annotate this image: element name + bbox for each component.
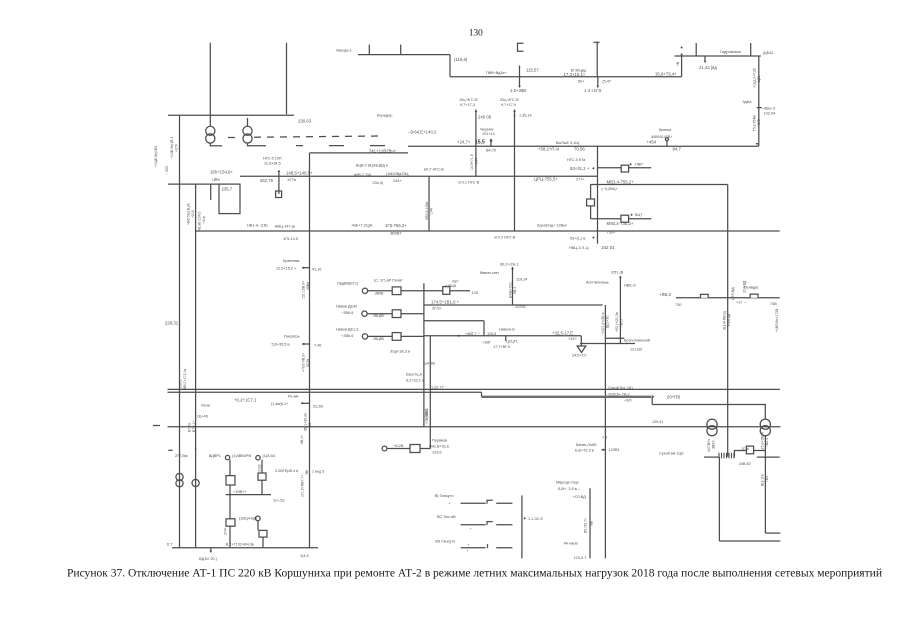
svg-text:ЗЦ-4+ПВпд: ЗЦ-4+ПВпд bbox=[722, 311, 726, 330]
wire tap 10ц bbox=[475, 110, 477, 147]
svg-text:1Г5-14,5: 1Г5-14,5 bbox=[283, 237, 298, 241]
generator G2 bbox=[362, 311, 367, 316]
svg-text:1,22,77: 1,22,77 bbox=[431, 386, 444, 390]
svg-text:9,7+17,9: 9,7+17,9 bbox=[501, 103, 516, 107]
wire bbox=[257, 521, 259, 531]
svg-text:−9Ва−3: −9Ва−3 bbox=[762, 107, 775, 111]
svg-text:Г5,2-754В: Г5,2-754В bbox=[753, 115, 757, 131]
svg-text:Еврстц,А: Еврстц,А bbox=[406, 373, 423, 377]
svg-text:125: 125 bbox=[472, 291, 478, 295]
breaker G2 bbox=[392, 310, 401, 318]
svg-text:ВДВР1: ВДВР1 bbox=[209, 454, 221, 458]
svg-text:Б,В+72,9 в: Б,В+72,9 в bbox=[575, 449, 594, 453]
dash mark left bbox=[153, 425, 160, 427]
arrowhead bbox=[209, 551, 212, 553]
svg-text:+: + bbox=[470, 527, 472, 531]
svg-text:+219: +219 bbox=[191, 210, 195, 218]
wire to long riser bbox=[590, 184, 728, 186]
thick line 205,5 bbox=[482, 396, 652, 398]
wire Кропоткинский bbox=[580, 343, 635, 345]
wire tie 1ВВ7 bbox=[226, 494, 271, 496]
svg-text:ЗГ/3+: ЗГ/3+ bbox=[432, 306, 443, 310]
svg-text:24,5+Г,0: 24,5+Г,0 bbox=[572, 354, 586, 358]
wire tap bbox=[704, 56, 706, 61]
svg-text:ЦВы: ЦВы bbox=[212, 178, 220, 182]
svg-text:ПВВ+Вд3я+: ПВВ+Вд3я+ bbox=[486, 71, 507, 75]
wire reactor out bbox=[590, 206, 592, 219]
arrowhead T4 feeder bbox=[194, 449, 196, 451]
svg-text:+0,2+1С7,1: +0,2+1С7,1 bbox=[234, 397, 257, 402]
svg-text:1 4 +1Г,6: 1 4 +1Г,6 bbox=[584, 88, 602, 93]
arrowhead bbox=[596, 86, 599, 88]
svg-text:577в: 577в bbox=[288, 178, 296, 182]
svg-text:+1ЦВ,Зв(1В4: +1ЦВ,Зв(1В4 bbox=[154, 146, 158, 167]
svg-text:Перввов: Перввов bbox=[432, 438, 447, 442]
wire Мврсцв bbox=[589, 488, 591, 558]
svg-text:ВчЕ,В+31,Е: ВчЕ,В+31,Е bbox=[429, 444, 450, 448]
arrowhead bbox=[592, 167, 594, 170]
arrester symbol bbox=[577, 346, 586, 353]
svg-text:7В4: 7В4 bbox=[765, 476, 769, 482]
svg-text:отп.2 НГС-В: отп.2 НГС-В bbox=[494, 236, 516, 240]
svg-text:+ЛВ,3: +ЛВ,3 bbox=[659, 292, 671, 297]
svg-text:1Г,Г: 1Г,Г bbox=[167, 543, 173, 547]
svg-text:115,57: 115,57 bbox=[526, 68, 539, 73]
svg-text:165+154,6+: 165+154,6+ bbox=[210, 170, 233, 175]
breaker Q3 notch bbox=[701, 294, 709, 297]
wire G3 bbox=[368, 335, 393, 337]
svg-text:Вввнн-сгвт: Вввнн-сгвт bbox=[480, 271, 499, 275]
arrowhead bbox=[704, 61, 707, 63]
svg-text:+ЦЕ1: +ЦЕ1 bbox=[757, 75, 761, 84]
wire Ангт branch bbox=[619, 276, 621, 344]
wire to T6 bbox=[764, 404, 766, 420]
wire bottom link bbox=[719, 540, 780, 542]
reactor R1 bbox=[587, 199, 595, 206]
transformer T1 bbox=[206, 126, 215, 143]
svg-text:Шунфтзд+ 12Вкч: Шунфтзд+ 12Вкч bbox=[537, 224, 567, 228]
svg-text:+3/0: +3/0 bbox=[624, 399, 632, 403]
svg-text:..ЗВ5В: ..ЗВ5В bbox=[373, 291, 384, 295]
svg-text:,ПВР: ,ПВР bbox=[634, 163, 643, 167]
svg-text:244+: 244+ bbox=[393, 179, 402, 183]
svg-text:−ЗВ6,6: −ЗВ6,6 bbox=[341, 311, 353, 315]
wire tap 20ц otp bbox=[514, 110, 516, 232]
svg-text:КЗВ6: КЗВ6 bbox=[425, 409, 429, 417]
svg-text:КМ3,4-735,2+: КМ3,4-735,2+ bbox=[607, 221, 634, 226]
svg-text:1,5+35В: 1,5+35В bbox=[510, 88, 526, 93]
svg-text:+379: +379 bbox=[174, 144, 178, 152]
wire bus to Q bbox=[424, 290, 443, 292]
svg-text:Сухой вм 1Ц6: Сухой вм 1Ц6 bbox=[659, 452, 683, 456]
bus Гидровская bbox=[675, 55, 761, 57]
wire top bus A bbox=[358, 54, 450, 56]
wire G3 to bus bbox=[401, 335, 424, 337]
line 174,5 bbox=[424, 304, 603, 306]
svg-text:(С. 1Г) вР Почвт: (С. 1Г) вР Почвт bbox=[374, 279, 403, 283]
wire tap bbox=[519, 66, 521, 87]
svg-text:5В,4: 5В,4 bbox=[513, 287, 517, 294]
wire long riser x605 bbox=[604, 305, 606, 558]
wire stub bbox=[302, 267, 309, 269]
svg-text:+344: +344 bbox=[474, 158, 478, 166]
breaker Q6 bbox=[746, 446, 753, 454]
wire legend bus bbox=[521, 495, 523, 558]
wire legend r2b bbox=[496, 524, 512, 526]
svg-text:ЦРЦ-755,5+: ЦРЦ-755,5+ bbox=[534, 177, 558, 182]
dashed corridor boundary bbox=[228, 136, 240, 138]
svg-text:В5,/33,7+: В5,/33,7+ bbox=[584, 518, 588, 533]
wire left feeder 2 bbox=[195, 184, 197, 548]
wire branch riser bbox=[597, 146, 599, 244]
svg-text:Мврсцв-стцв: Мврсцв-стцв bbox=[556, 480, 578, 484]
svg-text:+С0,ВД: +С0,ВД bbox=[573, 495, 587, 499]
svg-text:12ЗВ1: 12ЗВ1 bbox=[609, 448, 620, 452]
wire legend r1a bbox=[461, 502, 486, 504]
svg-text:125,4): 125,4) bbox=[652, 420, 664, 424]
svg-text:+1В9,Вч+172$: +1В9,Вч+172$ bbox=[775, 309, 779, 332]
machine M1 bbox=[382, 446, 387, 451]
wire bbox=[229, 460, 231, 476]
svg-text:+58,2+П,\4: +58,2+П,\4 bbox=[538, 147, 560, 152]
wire legend r1b bbox=[496, 502, 512, 504]
svg-text:/вВ: /вВ bbox=[590, 520, 594, 526]
wire link right bbox=[765, 532, 780, 534]
line A long 110kV bbox=[168, 426, 781, 428]
transformer T6 bbox=[760, 419, 770, 436]
svg-text:Заводс-1: Заводс-1 bbox=[336, 49, 352, 53]
breaker B3 bbox=[258, 473, 266, 480]
contact symbol r2 bbox=[487, 522, 493, 526]
generator bracket 2 bbox=[594, 41, 600, 43]
svg-text:242 01: 242 01 bbox=[601, 245, 615, 250]
arrowhead thick line bbox=[652, 395, 655, 399]
svg-text:1Г1,6+ПВ7,7+: 1Г1,6+ПВ7,7+ bbox=[300, 474, 304, 497]
svg-text:Щ(')+3С: Щ(')+3С bbox=[606, 315, 610, 328]
svg-text:В,2+7132+В4,3в: В,2+7132+В4,3в bbox=[226, 543, 254, 547]
wire reactor stub bbox=[590, 185, 592, 200]
wire tap bbox=[597, 77, 599, 86]
wire bbox=[229, 485, 231, 519]
wire row bbox=[704, 456, 719, 458]
dashed row 2 bbox=[296, 145, 385, 147]
arrowhead bus end bbox=[756, 143, 759, 145]
svg-text:+1ВГ: +1ВГ bbox=[482, 340, 491, 344]
svg-text:+4ВГ,7 −: +4ВГ,7 − bbox=[465, 332, 481, 336]
wire gen bus bbox=[423, 283, 425, 427]
svg-text:121,ВЗ: 121,ВЗ bbox=[630, 348, 643, 352]
wire G1 bbox=[368, 290, 393, 292]
svg-text:60,2+/2А,1: 60,2+/2А,1 bbox=[500, 262, 518, 266]
arrowhead bbox=[278, 170, 281, 172]
svg-text:+В,вЕ-154,6: +В,вЕ-154,6 bbox=[198, 211, 202, 231]
svg-text:730: 730 bbox=[675, 303, 681, 307]
wire bbox=[261, 480, 263, 494]
wire down left bbox=[718, 457, 720, 541]
svg-text:ВЦВ-2 ВЦ4аЦВД в: ВЦВ-2 ВЦ4аЦВД в bbox=[356, 164, 388, 168]
svg-text:+15?: +15? bbox=[568, 337, 577, 341]
svg-text:Б4/В+7С1: Б4/В+7С1 bbox=[509, 282, 513, 298]
line lower left bbox=[168, 391, 482, 393]
svg-text:(−3,2ВЦ+: (−3,2ВЦ+ bbox=[601, 187, 618, 191]
wire bbox=[262, 537, 264, 547]
svg-text:21,44 [вд: 21,44 [вд bbox=[699, 65, 717, 70]
wire right riser bbox=[758, 56, 760, 146]
svg-text:ВыЛыЕ 5,1Щ: ВыЛыЕ 5,1Щ bbox=[556, 141, 579, 145]
svg-text:741+12В2Вч+: 741+12В2Вч+ bbox=[369, 148, 397, 153]
svg-text:53+(1,) в: 53+(1,) в bbox=[570, 236, 585, 240]
svg-text:ВС Твс-нВ: ВС Твс-нВ bbox=[437, 514, 456, 519]
svg-text:Кринка: Кринка bbox=[659, 128, 672, 132]
svg-text:Гвнсвтрь: Гвнсвтрь bbox=[284, 334, 300, 338]
svg-text:+1Ц3,2+7,2$: +1Ц3,2+7,2$ bbox=[753, 68, 757, 88]
wire tap Вввнн bbox=[512, 267, 514, 305]
line to Мвкснн bbox=[424, 320, 484, 322]
breaker Кв7 bbox=[443, 287, 450, 295]
generator G1 bbox=[362, 288, 367, 293]
svg-text:ЛВ2,5-153в: ЛВ2,5-153в bbox=[425, 201, 429, 220]
wire stub bbox=[602, 449, 606, 451]
svg-text:ВЗ Гансуто: ВЗ Гансуто bbox=[435, 539, 455, 544]
svg-text:123,6: 123,6 bbox=[432, 450, 442, 454]
svg-text:15,9+73,4+: 15,9+73,4+ bbox=[655, 72, 677, 77]
wire stub up 1 bbox=[695, 43, 697, 56]
svg-text:НВ1-Н, (1В): НВ1-Н, (1В) bbox=[247, 224, 268, 228]
svg-text:НГС-5 КТа: НГС-5 КТа bbox=[567, 158, 586, 162]
svg-text:2ВЦ5В: 2ВЦ5В bbox=[373, 337, 385, 341]
svg-text:+32,5-17,Е: +32,5-17,Е bbox=[552, 331, 573, 336]
svg-text:(1М2ЛВд75Ц,: (1М2ЛВд75Ц, bbox=[386, 172, 409, 176]
line Sukhoy Log upper bbox=[168, 388, 780, 390]
svg-text:24В,В7: 24В,В7 bbox=[739, 462, 751, 466]
contact symbol r1 bbox=[487, 500, 493, 504]
wire to arrester bbox=[580, 336, 582, 346]
svg-text:115,9: 115,9 bbox=[487, 332, 496, 336]
arrowhead bbox=[518, 86, 521, 88]
arrowhead bbox=[301, 402, 303, 405]
svg-text:10ц НГС-В: 10ц НГС-В bbox=[459, 98, 478, 102]
wire long riser x727 bbox=[727, 185, 729, 457]
svg-text:3В9В7: 3В9В7 bbox=[390, 232, 401, 236]
svg-text:+1С7,2+/2Б в: +1С7,2+/2Б в bbox=[601, 312, 605, 334]
svg-text:Нввсгн-Е: Нввсгн-Е bbox=[499, 327, 515, 331]
svg-text:+1ВВ7+: +1ВВ7+ bbox=[233, 490, 248, 494]
svg-text:Рисунок 37. Отключение АТ-1 ПС: Рисунок 37. Отключение АТ-1 ПС 220 кВ Ко… bbox=[67, 567, 882, 580]
svg-text:240 09: 240 09 bbox=[478, 115, 492, 120]
svg-text:3дБа: 3дБа bbox=[743, 100, 753, 104]
breaker Q1 bbox=[621, 165, 628, 172]
bus 110kV upper bbox=[450, 76, 682, 78]
wire down bbox=[483, 321, 485, 336]
svg-text:Яч-вков: Яч-вков bbox=[564, 541, 578, 545]
wire right drop bbox=[681, 56, 683, 77]
bus 230.63 bbox=[168, 114, 294, 116]
svg-text:70,56: 70,56 bbox=[574, 147, 585, 152]
svg-text:123,5 7: 123,5 7 bbox=[574, 556, 587, 560]
svg-text:130: 130 bbox=[469, 27, 483, 38]
svg-text:Коридор: Коридор bbox=[377, 113, 392, 118]
breaker B2 bbox=[226, 519, 235, 526]
svg-text:1,35,14: 1,35,14 bbox=[519, 114, 532, 118]
svg-text:Брвтснвв.: Брвтснвв. bbox=[283, 259, 300, 263]
svg-text:+: + bbox=[449, 502, 451, 506]
svg-text:50+: 50+ bbox=[578, 79, 585, 83]
svg-text:115,9+ЗВ14: 115,9+ЗВ14 bbox=[761, 432, 765, 451]
svg-text:6В,1+39,2в: 6В,1+39,2в bbox=[303, 413, 307, 431]
wire legend r3b bbox=[496, 547, 512, 549]
svg-text:Сухой Лог 1Ю: Сухой Лог 1Ю bbox=[608, 386, 633, 390]
svg-text:Бвгвн-ЛсАЕ: Бвгвн-ЛсАЕ bbox=[576, 443, 597, 447]
svg-text:Рь-вА: Рь-вА bbox=[288, 395, 299, 399]
svg-text:174,5+1В1,6 +: 174,5+1В1,6 + bbox=[431, 299, 460, 304]
wire tick bbox=[210, 547, 212, 551]
svg-text:+52,)+/21,2в: +52,)+/21,2в bbox=[615, 312, 619, 332]
wire stub НГС-5 10Л bbox=[278, 171, 280, 195]
wire legend r2a bbox=[461, 524, 486, 526]
transformer T2 bbox=[243, 126, 252, 143]
line Мвкснн bbox=[424, 335, 581, 337]
machine ВДВР2 bbox=[256, 456, 260, 460]
svg-text:+: + bbox=[467, 549, 469, 553]
node square bbox=[490, 139, 492, 142]
wire row right bbox=[757, 456, 780, 458]
svg-text:Лена: Лена bbox=[201, 404, 211, 408]
svg-text:МВ3,4-755,2+: МВ3,4-755,2+ bbox=[607, 179, 635, 184]
hatch group bbox=[718, 453, 720, 459]
arrowhead bbox=[302, 343, 304, 346]
wire tick bbox=[505, 336, 507, 341]
wire bbox=[229, 526, 231, 547]
wire jog up bbox=[734, 451, 746, 458]
svg-text:В) Гансуто: В) Гансуто bbox=[435, 493, 454, 498]
svg-text:101+14: 101+14 bbox=[482, 132, 495, 136]
svg-text:1,1-3С,Е: 1,1-3С,Е bbox=[528, 517, 543, 521]
svg-text:+ в: + в bbox=[602, 436, 607, 440]
wire T1 to bus bbox=[209, 143, 211, 146]
wire legend r3a bbox=[461, 547, 486, 549]
svg-text:5С2в: 5С2в bbox=[306, 359, 310, 367]
svg-text:7Вт: 7Вт bbox=[305, 469, 309, 475]
wire feeder-1 drop bbox=[209, 43, 211, 126]
line 741+12В2В bbox=[310, 152, 409, 154]
svg-text:НВ5,/3: НВ5,/3 bbox=[624, 284, 636, 288]
breaker G1 bbox=[392, 287, 401, 295]
svg-text:−41в: −41в bbox=[202, 216, 206, 224]
breaker Q4 notch bbox=[750, 294, 758, 298]
svg-text:22,2В: 22,2В bbox=[313, 404, 323, 408]
wire left feeder 1 bbox=[179, 115, 181, 547]
line 110kV tie left bbox=[168, 183, 219, 185]
svg-text:252,76: 252,76 bbox=[260, 178, 274, 183]
svg-text:6В,1+: 6В,1+ bbox=[300, 435, 304, 444]
svg-text:Гидровская: Гидровская bbox=[720, 49, 741, 54]
svg-text:53+31,2 +: 53+31,2 + bbox=[570, 166, 590, 171]
breaker Q5 bbox=[410, 445, 420, 453]
svg-text:1ь4 9В: 1ь4 9В bbox=[423, 362, 435, 366]
svg-text:5,6+35,5 в: 5,6+35,5 в bbox=[272, 342, 290, 346]
wire tap down bbox=[475, 146, 477, 176]
wire jog bbox=[481, 392, 483, 397]
svg-text:Нввов ДЕ1,3: Нввов ДЕ1,3 bbox=[336, 328, 358, 332]
wire to breaker Q2 bbox=[591, 218, 621, 220]
svg-text:228,31: 228,31 bbox=[165, 321, 179, 326]
svg-text:(5,47: (5,47 bbox=[602, 80, 611, 84]
svg-text:ВЦ7: ВЦ7 bbox=[635, 213, 642, 217]
svg-text:+М2,5в(1В,)А: +М2,5в(1В,)А bbox=[186, 203, 190, 225]
svg-text:7,46: 7,46 bbox=[314, 344, 321, 348]
svg-text:7В1+: 7В1+ bbox=[620, 319, 624, 327]
machine ВДВР1 bbox=[225, 455, 229, 459]
node tick Кринка bbox=[665, 138, 668, 141]
svg-text:1Г5-756,3+: 1Г5-756,3+ bbox=[385, 223, 407, 228]
generator bracket 1 bbox=[518, 43, 524, 51]
svg-text:235,7: 235,7 bbox=[222, 187, 233, 192]
svg-text:вЛВ,2 154: вЛВ,2 154 bbox=[354, 173, 371, 177]
svg-text:+205,5+ ГА,2: +205,5+ ГА,2 bbox=[607, 392, 630, 396]
wire bbox=[420, 448, 430, 450]
svg-text:+: + bbox=[468, 543, 470, 547]
svg-text:2,2ВГЕрВ,4 в: 2,2ВГЕрВ,4 в bbox=[275, 469, 298, 473]
svg-text:230,1: 230,1 bbox=[178, 379, 182, 388]
node tick a bbox=[368, 45, 370, 55]
node tick bbox=[514, 114, 516, 116]
dashed corridor boundary 2 bbox=[254, 136, 382, 137]
arrowhead bbox=[475, 110, 478, 112]
arrowhead bbox=[457, 334, 459, 337]
svg-text:вЛ,Г НГС-В: вЛ,Г НГС-В bbox=[424, 168, 444, 172]
wire stub bbox=[605, 337, 624, 339]
wire bbox=[387, 448, 410, 450]
arrowhead bbox=[680, 53, 683, 55]
svg-text:41,16: 41,16 bbox=[312, 268, 322, 272]
svg-text:144: 144 bbox=[430, 208, 434, 214]
svg-text:74В: 74В bbox=[770, 302, 777, 306]
arrowhead bbox=[302, 266, 304, 269]
wire stub bbox=[301, 402, 309, 404]
svg-text:2ВЦ5В: 2ВЦ5В bbox=[373, 314, 385, 318]
wire G2 to bus bbox=[401, 313, 424, 315]
svg-text:−ЗВ6,6: −ЗВ6,6 bbox=[341, 334, 353, 338]
arrowhead bbox=[524, 517, 526, 520]
wire stub bbox=[302, 343, 309, 345]
svg-text:+454: +454 bbox=[647, 140, 657, 145]
line Пснвдуг bbox=[676, 297, 780, 299]
svg-text:(1,4в(6,1+: (1,4в(6,1+ bbox=[271, 402, 289, 406]
breaker Q2 bbox=[621, 215, 629, 222]
wire long riser x309 bbox=[309, 153, 311, 548]
wire tick bbox=[757, 107, 762, 109]
bus bottom bbox=[172, 547, 318, 549]
svg-text:ВВ,Г+173,1в: ВВ,Г+173,1в bbox=[183, 369, 187, 389]
svg-text:− 253: − 253 bbox=[165, 166, 169, 175]
jog symbol bbox=[276, 191, 282, 198]
wire stub bbox=[210, 184, 212, 200]
svg-text:НГС-5 10Л: НГС-5 10Л bbox=[263, 157, 282, 161]
svg-text:ВЦ-1Гв: ВЦ-1Гв bbox=[760, 474, 764, 486]
svg-text:(115,6): (115,6) bbox=[454, 57, 468, 62]
svg-text:44/7ВУч: 44/7ВУч bbox=[707, 439, 711, 452]
svg-text:5,2+32,1 в: 5,2+32,1 в bbox=[406, 379, 424, 383]
svg-text:1(4,5: 1(4,5 bbox=[300, 554, 309, 558]
wire T2 to bus bbox=[247, 143, 249, 146]
transformer T4 bbox=[192, 479, 199, 486]
generator G3 bbox=[362, 334, 367, 339]
wire down right bbox=[764, 436, 766, 533]
svg-text:ПвдВВ(ЕГс): ПвдВВ(ЕГс) bbox=[337, 282, 359, 286]
svg-text:9,7+17,3: 9,7+17,3 bbox=[460, 103, 475, 107]
svg-text:Б,В+, 3,5 в→: Б,В+, 3,5 в→ bbox=[558, 487, 581, 491]
wire from breaker bbox=[629, 167, 652, 169]
